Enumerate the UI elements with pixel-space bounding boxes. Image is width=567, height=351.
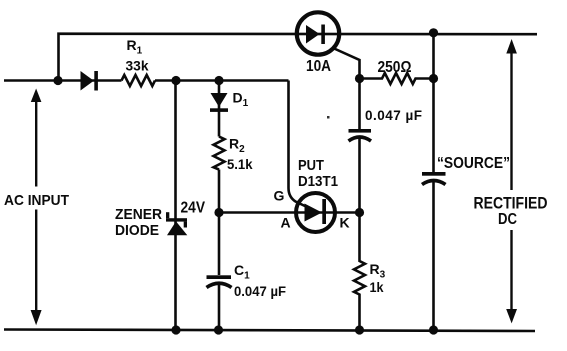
AC input arrow xyxy=(31,89,42,326)
wire: zener branch vertical xyxy=(174,81,177,331)
svg-text:250Ω: 250Ω xyxy=(378,59,412,76)
node I (bottom, zener) xyxy=(171,325,180,334)
node B (x=176) xyxy=(171,76,180,85)
node E (K node x=360) xyxy=(355,208,364,217)
svg-text:D1: D1 xyxy=(233,90,249,110)
svg-text:R3: R3 xyxy=(370,261,386,281)
svg-text:AC INPUT: AC INPUT xyxy=(4,192,69,209)
SCR Q2 (10A) xyxy=(297,12,360,78)
diode D1 xyxy=(210,93,228,112)
zener diode symbol xyxy=(166,212,187,235)
svg-text:0.047 µF: 0.047 µF xyxy=(365,108,422,123)
capacitor 0.047uF (top) xyxy=(349,129,372,141)
svg-text:PUT: PUT xyxy=(298,157,324,174)
node G2 (right of 250ohm) xyxy=(429,74,438,83)
svg-text:C1: C1 xyxy=(234,262,250,282)
svg-text:DIODE: DIODE xyxy=(115,223,159,239)
svg-text:R2: R2 xyxy=(229,136,245,156)
node F (SCR gate node) xyxy=(355,74,364,83)
svg-text:K: K xyxy=(340,215,350,231)
wire: D1/R2/C1 branch vertical xyxy=(218,81,221,331)
diode CR (series rectifier) xyxy=(81,71,98,91)
node A (junction left) xyxy=(53,76,62,85)
svg-text:0.047 µF: 0.047 µF xyxy=(234,283,286,299)
resistor R1 xyxy=(122,75,156,86)
node J (bottom, C1) xyxy=(214,325,223,334)
speck (scan artifact) xyxy=(327,116,330,119)
svg-text:10A: 10A xyxy=(306,58,331,75)
node L (bottom, source) xyxy=(429,325,438,334)
svg-text:1k: 1k xyxy=(370,279,384,295)
rectified DC arrow xyxy=(506,39,517,323)
svg-text:D13T1: D13T1 xyxy=(298,173,338,190)
capacitor SOURCE xyxy=(422,172,446,185)
resistor R2 xyxy=(214,137,225,170)
wire: snubber cap branch x=360 xyxy=(358,79,361,213)
wire: source branch x=434 xyxy=(432,31,435,330)
svg-text:R1: R1 xyxy=(127,37,143,57)
svg-text:ZENER: ZENER xyxy=(115,207,162,223)
svg-text:33k: 33k xyxy=(126,58,149,74)
wire: bottom rail xyxy=(4,330,535,332)
transistor Q1 PUT (D13T1) xyxy=(296,193,335,232)
svg-text:RECTIFIED: RECTIFIED xyxy=(474,195,548,213)
resistor R3 xyxy=(354,213,365,331)
capacitor C1 xyxy=(207,275,232,287)
svg-text:G: G xyxy=(274,188,285,204)
svg-text:5.1k: 5.1k xyxy=(227,156,253,172)
resistor 250 ohm xyxy=(360,73,434,84)
svg-text:24V: 24V xyxy=(181,200,206,217)
svg-text:DC: DC xyxy=(498,211,517,228)
svg-text:A: A xyxy=(281,215,291,231)
node D (zener level junction) xyxy=(214,208,223,217)
node K2 (bottom, R3) xyxy=(355,325,364,334)
svg-text:“SOURCE”: “SOURCE” xyxy=(437,155,510,172)
wire: top rail xyxy=(59,34,538,81)
wire: main AC line xyxy=(4,79,289,82)
node H (top rail right) xyxy=(429,28,438,37)
wire: gate line from main wire xyxy=(289,81,308,208)
node C (x=219) xyxy=(214,76,223,85)
wire: PUT anode line xyxy=(219,211,360,214)
